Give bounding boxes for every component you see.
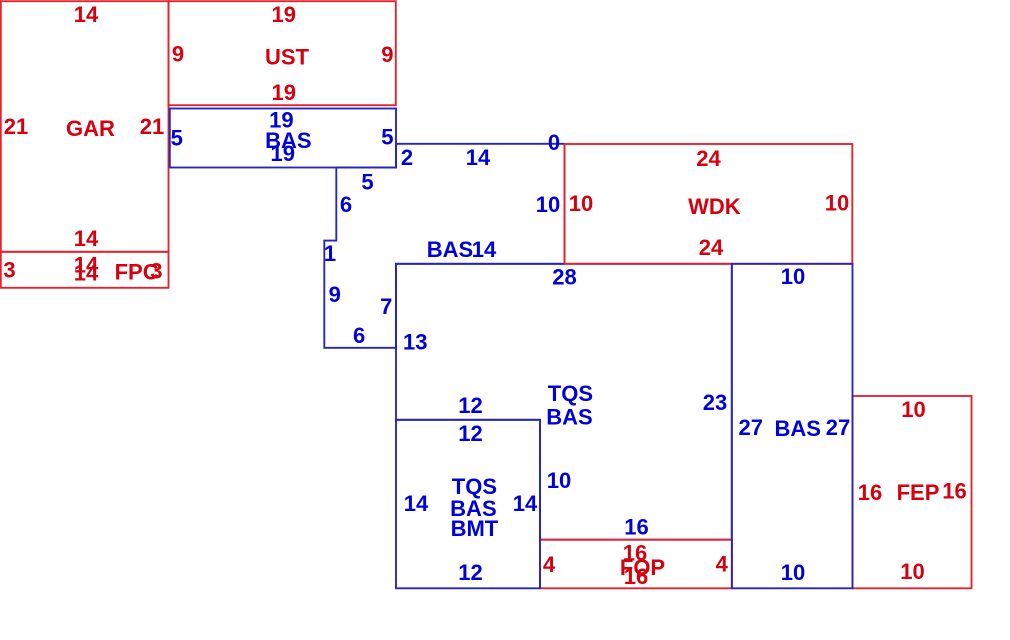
svg-text:16: 16 (942, 479, 966, 504)
svg-text:24: 24 (699, 235, 724, 260)
svg-text:27: 27 (826, 415, 850, 440)
svg-text:FEP: FEP (897, 480, 940, 505)
svg-text:19: 19 (271, 2, 295, 27)
svg-text:BMT: BMT (451, 516, 499, 541)
svg-text:27: 27 (739, 415, 763, 440)
svg-text:2: 2 (401, 145, 413, 170)
svg-text:BAS: BAS (774, 416, 820, 441)
svg-text:3: 3 (150, 259, 162, 284)
svg-text:3: 3 (3, 258, 15, 283)
svg-text:16: 16 (624, 515, 648, 540)
svg-text:UST: UST (265, 45, 310, 70)
svg-text:9: 9 (329, 282, 341, 307)
svg-text:4: 4 (543, 552, 556, 577)
svg-text:13: 13 (403, 330, 427, 355)
svg-text:12: 12 (458, 421, 482, 446)
svg-text:19: 19 (271, 80, 295, 105)
svg-text:12: 12 (458, 560, 482, 585)
svg-text:6: 6 (353, 323, 365, 348)
svg-text:7: 7 (380, 294, 392, 319)
svg-text:BAS: BAS (546, 405, 592, 430)
svg-text:5: 5 (171, 126, 183, 151)
svg-text:9: 9 (172, 42, 184, 67)
svg-text:WDK: WDK (688, 194, 741, 219)
svg-text:5: 5 (361, 170, 373, 195)
svg-text:14: 14 (466, 145, 491, 170)
svg-text:10: 10 (900, 559, 924, 584)
svg-text:10: 10 (825, 191, 849, 216)
svg-text:21: 21 (4, 114, 28, 139)
svg-text:5: 5 (381, 125, 393, 150)
svg-text:28: 28 (552, 265, 576, 290)
svg-text:6: 6 (340, 192, 352, 217)
svg-text:BAS: BAS (427, 237, 473, 262)
svg-text:9: 9 (381, 42, 393, 67)
svg-text:14: 14 (74, 2, 99, 27)
svg-text:24: 24 (696, 146, 721, 171)
svg-text:16: 16 (624, 564, 648, 589)
svg-text:10: 10 (569, 191, 593, 216)
svg-text:4: 4 (716, 552, 729, 577)
svg-text:19: 19 (271, 141, 295, 166)
svg-text:10: 10 (781, 560, 805, 585)
svg-text:14: 14 (74, 261, 99, 286)
svg-text:10: 10 (536, 192, 560, 217)
svg-text:0: 0 (548, 130, 560, 155)
svg-text:21: 21 (140, 114, 164, 139)
svg-text:23: 23 (703, 390, 727, 415)
svg-text:10: 10 (901, 397, 925, 422)
svg-text:10: 10 (547, 468, 571, 493)
svg-text:14: 14 (74, 226, 99, 251)
svg-text:12: 12 (458, 393, 482, 418)
svg-text:GAR: GAR (66, 116, 115, 141)
svg-text:1: 1 (324, 241, 336, 266)
svg-text:16: 16 (858, 480, 882, 505)
svg-text:14: 14 (404, 491, 429, 516)
svg-text:14: 14 (472, 237, 497, 262)
svg-text:TQS: TQS (548, 381, 593, 406)
svg-text:10: 10 (781, 264, 805, 289)
svg-text:14: 14 (513, 491, 538, 516)
